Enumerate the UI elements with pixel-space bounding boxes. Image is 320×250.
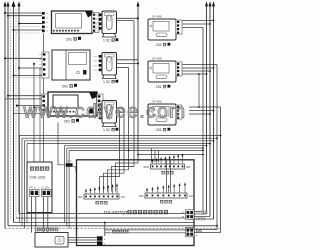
svg-text:1: 1 [103, 39, 105, 43]
svg-text:201: 201 [156, 85, 162, 89]
svg-text:201: 201 [156, 43, 162, 47]
svg-text:www.cdlvee.com: www.cdlvee.com [23, 102, 187, 123]
svg-text:1: 1 [103, 128, 105, 132]
svg-text:DF-4MB: DF-4MB [152, 57, 162, 61]
svg-text:802: 802 [139, 194, 144, 198]
svg-text:803: 803 [186, 165, 191, 169]
svg-text:02: 02 [106, 39, 110, 43]
svg-text:103: 103 [121, 195, 126, 199]
svg-text:PV 0: PV 0 [30, 185, 36, 189]
svg-text:801: 801 [78, 195, 83, 199]
svg-text:G 12V: G 12V [42, 185, 50, 189]
svg-text:12V: 12V [67, 159, 72, 163]
svg-text:201: 201 [156, 128, 162, 132]
svg-text:DF-4MB: DF-4MB [152, 15, 162, 19]
svg-text:1-4: 1-4 [196, 211, 200, 214]
svg-text:02: 02 [106, 128, 110, 132]
svg-text:DXB-12DB: DXB-12DB [30, 176, 46, 180]
svg-text:1: 1 [103, 80, 105, 84]
svg-text:DX-482*QT: DX-482*QT [104, 210, 128, 215]
svg-text:102: 102 [189, 194, 194, 198]
svg-text:201: 201 [62, 85, 68, 89]
svg-text:201: 201 [66, 38, 72, 42]
svg-text:1003: 1003 [143, 165, 149, 169]
svg-text:02: 02 [106, 80, 110, 84]
